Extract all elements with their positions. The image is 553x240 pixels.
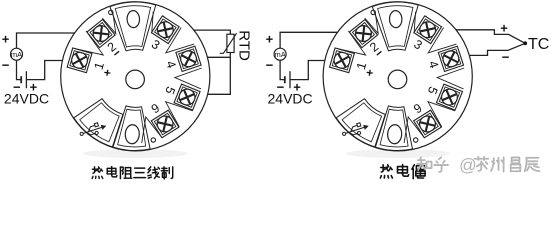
battery B1 24VDC [20,76,22,83]
svg-text:+: + [2,31,10,46]
caption: RTD three-wire (hand-drawn CJK) [92,167,103,179]
battery B2 24VDC [284,76,286,83]
wire: terminal 4 to RTD bottom [200,56,231,58]
svg-text:24VDC: 24VDC [268,90,313,106]
mA meter M2 [274,48,286,60]
wire: battery + to terminal 1 (right) [290,61,334,80]
svg-text:mA: mA [274,50,285,59]
wire: battery + to terminal 1 [26,61,70,80]
caption: thermocouple (hand-drawn CJK) [380,165,392,178]
shadow under left head [83,149,187,158]
svg-text:mA: mA [11,50,22,59]
wire: terminal 3 to TC + [444,30,525,44]
wire: mA meter + to terminal 2 (right) [280,32,350,48]
shadow under right head [346,149,450,158]
transmitter head (RTD wiring) [61,2,210,151]
usb icon right head [341,121,369,140]
svg-text:+: + [500,21,508,36]
svg-text:−: − [2,58,10,73]
watermark zhihu [417,157,431,170]
mA meter M1 [11,48,23,60]
wire: RTD bottom down to terminal 5 wire [201,53,230,95]
svg-text:−: − [266,58,274,73]
wire: meter to battery [17,60,22,79]
svg-text:−: − [502,50,510,65]
usb icon left head [78,121,106,140]
transmitter head (TC wiring) [323,2,472,151]
wire: terminal 3 to RTD top [180,30,231,34]
wire: terminal 4 to TC - [465,43,525,55]
RTD resistor element [227,34,234,52]
TC junction dot [523,41,527,45]
svg-text:24VDC: 24VDC [4,90,49,106]
svg-text:TC: TC [528,36,549,53]
wire: meter to battery (right) [280,60,285,79]
svg-text:+: + [266,31,274,46]
wire: mA meter + to terminal 2 [17,33,88,48]
svg-text:RTD: RTD [235,30,252,61]
